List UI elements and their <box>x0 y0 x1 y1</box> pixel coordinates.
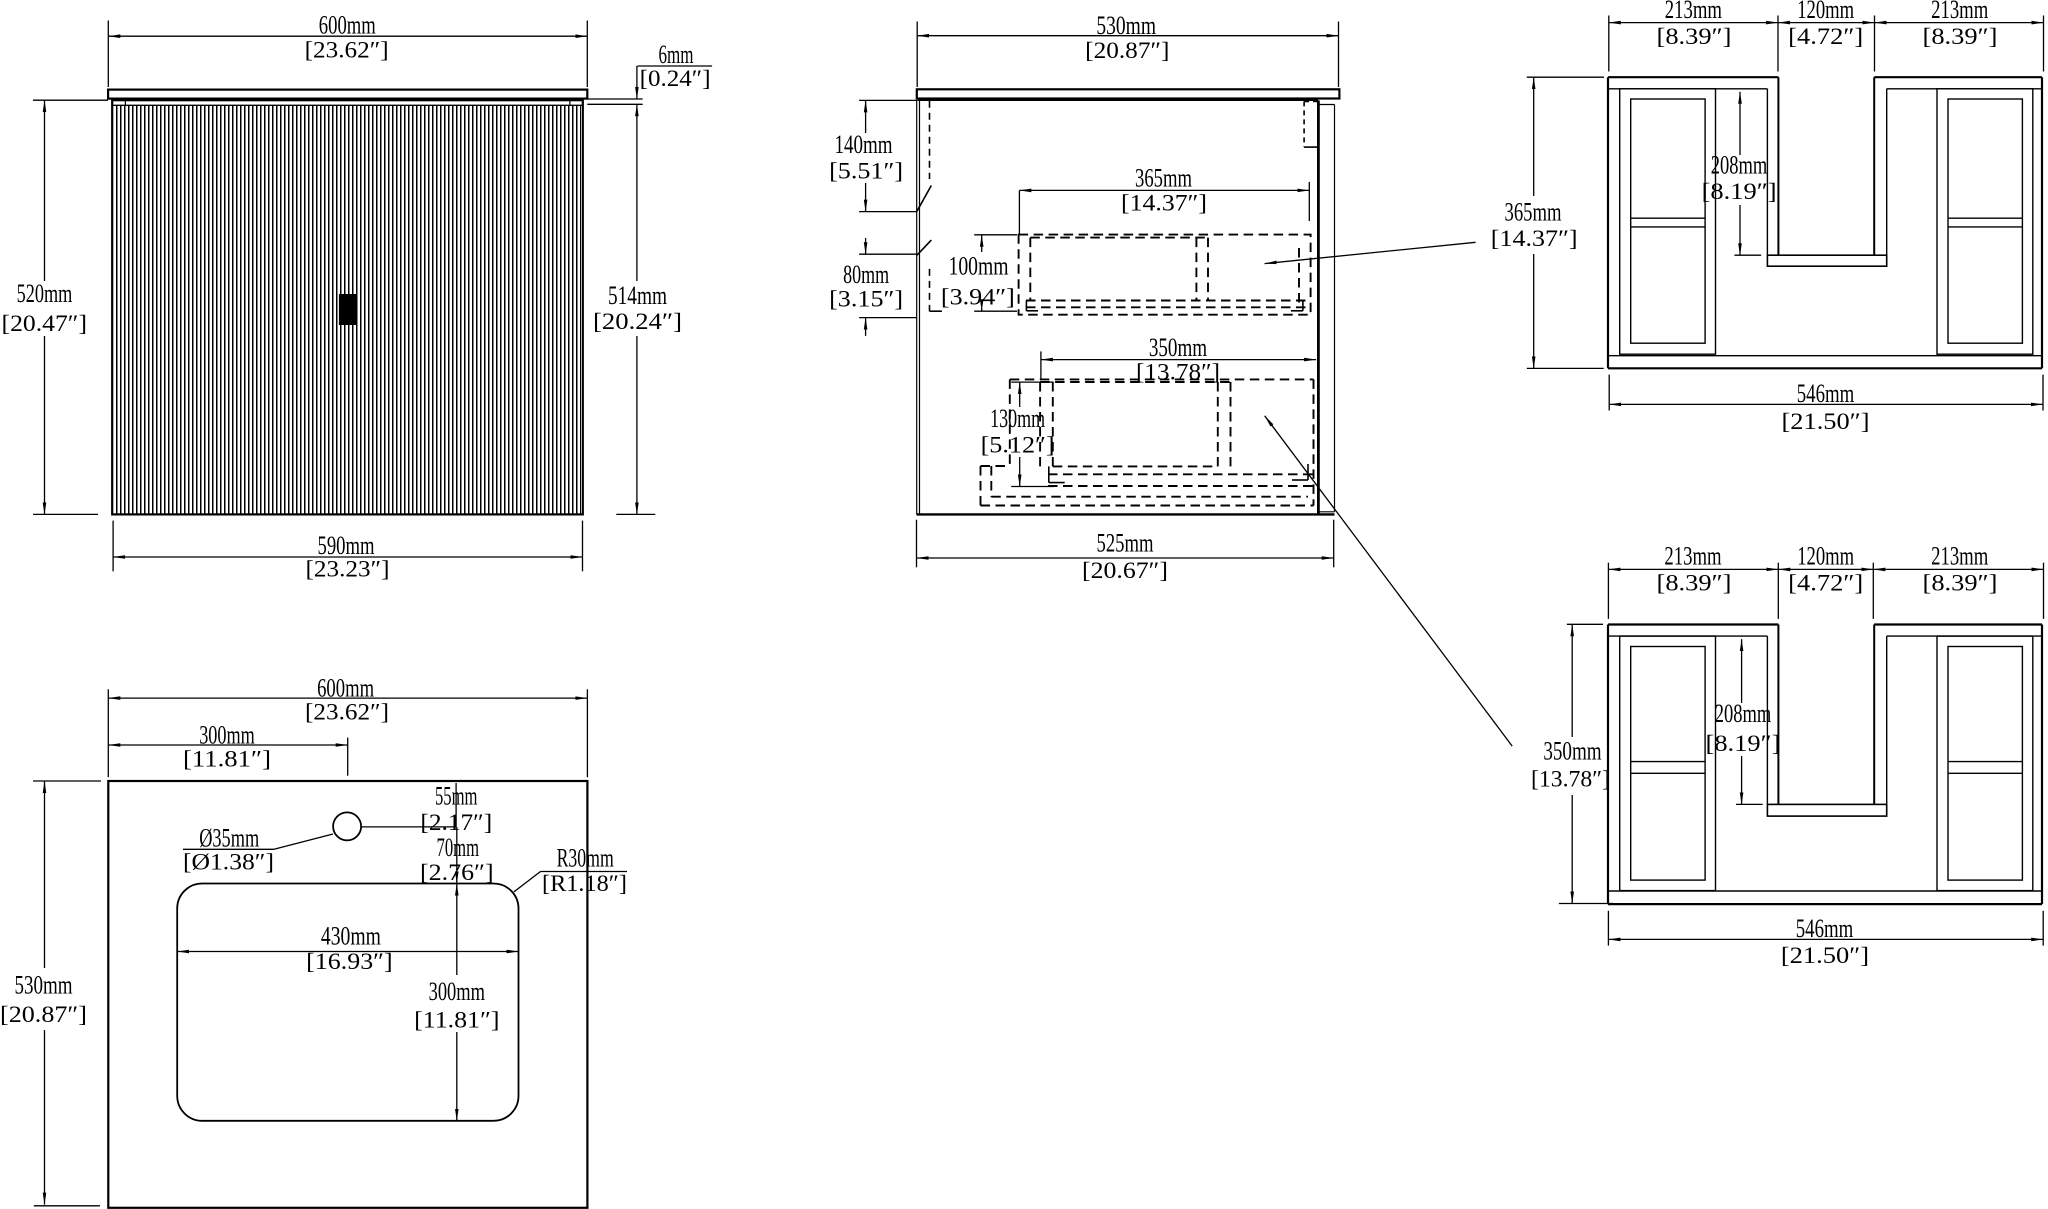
drawer plan A: plumbing notch right wall <box>1873 77 1875 255</box>
drawer plan A: left slide rail inner box <box>1631 99 1705 343</box>
dim 208mm B: dimension line <box>1741 639 1743 703</box>
side view top drawer: inner top dashed edge <box>1030 237 1208 239</box>
side view bottom drawer: bottom rail dashed lines <box>1048 473 1314 475</box>
svg-text:[14.37″]: [14.37″] <box>1121 191 1207 216</box>
dim 55mm: faucet centerline <box>362 826 457 828</box>
drawer plan B: right slide rail outer box <box>1937 636 2033 891</box>
svg-text:213mm: 213mm <box>1665 0 1722 24</box>
svg-text:[8.19″]: [8.19″] <box>1702 179 1777 204</box>
drawer plan A: notch bottom bridge <box>1767 255 1886 266</box>
svg-text:213mm: 213mm <box>1931 542 1988 571</box>
dim 530mm plan left: dimension line <box>44 781 46 968</box>
svg-text:130mm: 130mm <box>990 404 1045 433</box>
drawer plan B: back band top edge <box>1608 623 1778 625</box>
svg-text:70mm: 70mm <box>437 833 480 862</box>
drawer plan A: right slide rail outer box <box>1937 89 2033 354</box>
svg-text:140mm: 140mm <box>835 130 893 159</box>
dim 530mm side top: dimension line <box>917 35 1338 37</box>
svg-text:Ø35mm: Ø35mm <box>199 824 259 853</box>
countertop plan: sink cutout rounded rectangle <box>177 884 518 1121</box>
dim 525mm bottom: extension lines <box>916 520 918 568</box>
svg-text:[R1.18″]: [R1.18″] <box>542 871 627 896</box>
label corner radius R30: underline <box>541 871 628 873</box>
dim 213/120/213 top A: dimension lines <box>1609 22 1778 24</box>
side view bottom drawer: dashed step <box>981 465 1010 467</box>
svg-text:[14.37″]: [14.37″] <box>1491 226 1578 251</box>
dim 6mm: leader underline <box>637 65 712 67</box>
dim 520mm left: dimension line upper <box>44 100 46 281</box>
dim 208mm A: dimension line <box>1739 92 1741 155</box>
dim 350mm side: extension line <box>1040 351 1042 380</box>
dim 80mm: outside arrows <box>865 238 867 254</box>
svg-text:[8.39″]: [8.39″] <box>1923 571 1998 596</box>
dim 6mm: extension line upper <box>587 98 642 100</box>
svg-text:6mm: 6mm <box>659 40 694 69</box>
drawer plan A: front band <box>1608 355 2042 357</box>
side view: front panel break diagonal upper <box>917 186 931 212</box>
svg-text:[5.51″]: [5.51″] <box>829 159 903 184</box>
dim 365mm A: ticks <box>1527 76 1604 78</box>
svg-text:[23.23″]: [23.23″] <box>306 557 390 582</box>
side view top drawer: right inner dashed line <box>1298 248 1300 307</box>
dim 350mm B: ticks <box>1567 623 1603 625</box>
side view: back panel inner thick line <box>1317 101 1320 515</box>
side view bottom drawer: inner offset left <box>990 466 992 497</box>
dim 208mm B: tick <box>1736 803 1763 805</box>
side view bottom drawer: left hook <box>1048 466 1050 482</box>
dim 590mm bottom: dimension line <box>113 556 582 558</box>
drawer plan B: plumbing notch left wall <box>1777 625 1779 805</box>
dim 70mm: vertical line with arrow <box>456 827 458 884</box>
side view bottom drawer: right hook <box>1307 464 1309 480</box>
dim 600mm top: dimension line <box>108 35 587 37</box>
drawer plan A: right slide rail inner box <box>1948 99 2022 343</box>
dim 350mm side: dimension line <box>1041 359 1316 361</box>
leader to top drawer detail view <box>1265 242 1476 263</box>
front view: left side panel divider <box>124 100 126 105</box>
side view: back panel top cap <box>1318 104 1334 106</box>
dim 600mm top: extension lines <box>107 21 109 88</box>
side view: cabinet top line <box>918 99 1319 101</box>
dim 6mm: extension line lower <box>587 103 642 105</box>
dim 80mm: ticks <box>859 253 917 255</box>
svg-text:350mm: 350mm <box>1149 333 1207 362</box>
svg-text:[11.81″]: [11.81″] <box>183 747 271 772</box>
drawer plan A: left outer edge <box>1607 77 1609 368</box>
svg-text:546mm: 546mm <box>1796 914 1854 943</box>
svg-text:300mm: 300mm <box>199 721 255 750</box>
side view bottom drawer: box left dashed double wall <box>1039 382 1041 466</box>
drawer plan A: right outer edge <box>2041 77 2043 368</box>
svg-text:[20.24″]: [20.24″] <box>593 309 682 334</box>
dim 525mm bottom: dimension line <box>917 557 1334 559</box>
dim 140mm: dimension line <box>865 100 867 133</box>
dim 100mm: ticks <box>974 234 1017 236</box>
svg-text:[21.50″]: [21.50″] <box>1782 409 1870 434</box>
drawer plan B: plumbing notch right wall <box>1873 625 1875 805</box>
svg-text:[21.50″]: [21.50″] <box>1781 943 1869 968</box>
front view: cabinet outline <box>112 100 583 514</box>
side view bottom drawer: box top dashed edge <box>1040 381 1230 383</box>
dim 213/120/213 top B: extension lines <box>1607 563 1609 619</box>
svg-text:208mm: 208mm <box>1715 699 1772 728</box>
svg-text:350mm: 350mm <box>1543 737 1601 766</box>
svg-text:[20.47″]: [20.47″] <box>2 311 88 336</box>
drawer plan B: right slide rail inner box <box>1948 647 2022 881</box>
dim 365mm side: dimension line <box>1019 189 1309 191</box>
side view: front panel break diagonal lower <box>917 240 931 255</box>
drawer plan B: back band inner edge <box>1608 635 1767 637</box>
side view: hanging cleat dashed left edge <box>1303 101 1305 147</box>
svg-text:[16.93″]: [16.93″] <box>306 949 393 974</box>
dim 520mm left: top tick <box>33 99 108 101</box>
countertop plan: faucet hole <box>333 812 361 840</box>
side view: front panel dashed edge upper <box>929 101 931 179</box>
svg-text:[13.78″]: [13.78″] <box>1531 767 1610 792</box>
svg-text:600mm: 600mm <box>317 674 374 703</box>
side view top drawer: back wall dashed double line <box>1195 238 1197 301</box>
svg-text:530mm: 530mm <box>15 971 73 1000</box>
side view: front panel dashed edge lower <box>929 269 931 311</box>
side view bottom drawer: dashed left edge lower <box>980 466 982 506</box>
dim 365mm side: extension lines <box>1018 190 1020 235</box>
front view: right side panel divider <box>569 100 571 105</box>
svg-text:[8.39″]: [8.39″] <box>1923 24 1998 49</box>
svg-text:300mm: 300mm <box>429 977 485 1006</box>
dim 514mm right: bottom tick <box>616 513 655 515</box>
side view top drawer: inner left dashed wall <box>1029 238 1031 301</box>
drawer plan A: left slide rail outer box <box>1620 89 1716 354</box>
dim 546mm A: extension lines <box>1608 375 1610 411</box>
side view top drawer: right hook <box>1302 301 1304 311</box>
drawer plan B: right outer edge <box>2041 625 2043 905</box>
dim 140mm: ticks <box>859 99 917 101</box>
svg-text:R30mm: R30mm <box>557 844 614 873</box>
drawer plan A: right slide rail divider <box>1948 217 2022 219</box>
side view bottom drawer: box bottom dashed edge <box>1053 465 1218 467</box>
svg-text:100mm: 100mm <box>949 252 1009 281</box>
svg-text:213mm: 213mm <box>1931 0 1988 24</box>
dim 546mm B: extension lines <box>1607 911 1609 946</box>
dim 55mm: vertical line <box>455 783 457 827</box>
dim 514mm right: dimension line (down arrow) <box>636 336 638 514</box>
side view: back panel bottom cap <box>1318 511 1334 513</box>
countertop plan: outer rectangle <box>108 781 587 1208</box>
svg-text:530mm: 530mm <box>1096 11 1156 40</box>
side view bottom drawer: dashed right edge <box>1313 379 1315 505</box>
svg-text:80mm: 80mm <box>843 260 889 289</box>
dim 520mm left: bottom tick <box>33 513 98 515</box>
svg-text:430mm: 430mm <box>321 922 381 951</box>
side view bottom drawer: box back dashed double wall <box>1217 382 1219 466</box>
drawer plan A: back band inner edge <box>1608 88 1767 90</box>
dim 546mm A: dimension line <box>1609 403 2043 405</box>
drawer plan B: front band <box>1608 890 2042 892</box>
svg-text:365mm: 365mm <box>1505 198 1562 227</box>
dim 600mm plan: dimension line <box>108 697 587 699</box>
svg-text:525mm: 525mm <box>1097 528 1154 557</box>
svg-text:[2.76″]: [2.76″] <box>420 860 494 885</box>
svg-text:[8.39″]: [8.39″] <box>1657 24 1732 49</box>
dim 365mm A: dimension line <box>1533 77 1535 196</box>
side view top drawer: bottom rail dashed lines <box>1026 300 1311 302</box>
svg-text:213mm: 213mm <box>1664 542 1721 571</box>
side view bottom drawer: dashed left edge upper <box>1009 379 1011 466</box>
svg-text:[Ø1.38″]: [Ø1.38″] <box>183 850 274 875</box>
drawer plan B: left slide rail outer box <box>1620 636 1716 891</box>
svg-text:[4.72″]: [4.72″] <box>1788 24 1863 49</box>
drawer plan B: left outer edge <box>1607 625 1609 905</box>
svg-text:[20.67″]: [20.67″] <box>1082 558 1168 583</box>
dim 546mm B: dimension line <box>1608 938 2043 940</box>
svg-text:520mm: 520mm <box>17 279 73 308</box>
label corner radius R30: leader <box>514 872 541 892</box>
svg-text:55mm: 55mm <box>435 782 478 811</box>
svg-text:546mm: 546mm <box>1797 379 1855 408</box>
drawer plan A: plumbing notch left wall <box>1777 77 1779 255</box>
svg-text:120mm: 120mm <box>1797 542 1854 571</box>
label faucet hole diameter: underline <box>183 848 274 850</box>
svg-text:[20.87″]: [20.87″] <box>0 1002 87 1027</box>
dim 6mm: leader drop with down arrow <box>636 66 638 99</box>
dim 430mm sink width: dimension line <box>177 951 518 953</box>
dim 530mm side top: extension lines <box>916 22 918 88</box>
svg-text:[8.19″]: [8.19″] <box>1706 731 1781 756</box>
svg-text:[0.24″]: [0.24″] <box>640 66 711 91</box>
side view top drawer: outer dashed box <box>1019 235 1311 315</box>
front view: countertop <box>108 90 587 99</box>
dim 600mm plan: extension lines <box>107 689 109 777</box>
dim 130mm: dimension line <box>1019 382 1021 407</box>
dim 208mm A: tick <box>1734 254 1761 256</box>
drawer plan A: left slide rail divider <box>1631 217 1705 219</box>
dim 520mm left: dimension line lower <box>44 336 46 514</box>
svg-text:[23.62″]: [23.62″] <box>305 37 389 62</box>
drawer plan A: back band top edge <box>1608 76 1778 78</box>
side view: cabinet bottom line <box>917 513 1335 515</box>
front view: fluted door panel <box>114 105 581 513</box>
side view bottom drawer: dashed top edge <box>1010 378 1314 380</box>
svg-text:[11.81″]: [11.81″] <box>414 1007 499 1032</box>
drawer plan B: left slide rail inner box <box>1631 647 1705 881</box>
dim 300mm sink depth: dimension line <box>456 884 458 976</box>
side view: hanging cleat dashed top edge <box>1304 100 1318 102</box>
front view: door handle <box>339 294 358 325</box>
label faucet hole diameter: leader <box>274 834 333 849</box>
side view: front edge double line <box>916 100 918 514</box>
side view top drawer: left hook <box>1025 301 1027 311</box>
dim 130mm: ticks <box>1011 381 1053 383</box>
drawer plan B: right slide rail divider <box>1948 761 2022 763</box>
side view bottom drawer: dashed bottom edge <box>981 505 1314 507</box>
svg-text:[4.72″]: [4.72″] <box>1788 571 1863 596</box>
dim 300mm faucet offset: tick <box>347 738 349 776</box>
dim 100mm: dimension line <box>981 235 983 252</box>
dim 590mm bottom: extension lines <box>112 521 114 572</box>
svg-text:120mm: 120mm <box>1797 0 1854 24</box>
svg-text:[8.39″]: [8.39″] <box>1657 571 1732 596</box>
svg-text:[5.12″]: [5.12″] <box>981 433 1055 458</box>
drawer plan B: notch bottom bridge <box>1767 804 1886 816</box>
leader to bottom drawer detail view <box>1265 416 1513 746</box>
dim 300mm faucet offset: dimension line <box>108 744 347 746</box>
side view bottom drawer: inner offset bottom <box>991 496 1308 498</box>
dim 213/120/213 top B: dimension lines <box>1608 568 1778 570</box>
svg-text:514mm: 514mm <box>608 281 667 310</box>
svg-text:[3.15″]: [3.15″] <box>829 287 903 312</box>
side view: front panel dashed hook <box>930 310 942 312</box>
dim 514mm right: dimension line (up arrow) <box>636 104 638 281</box>
svg-text:365mm: 365mm <box>1135 164 1192 193</box>
svg-text:[20.87″]: [20.87″] <box>1085 38 1169 63</box>
side view: hanging cleat bottom line <box>1304 146 1318 148</box>
svg-text:600mm: 600mm <box>319 11 376 40</box>
drawer plan B: left slide rail divider <box>1631 761 1705 763</box>
svg-text:[3.94″]: [3.94″] <box>941 285 1015 310</box>
side view: countertop <box>917 89 1340 98</box>
dim 350mm B: dimension line <box>1571 624 1573 737</box>
side view: back panel outer line <box>1334 105 1336 512</box>
dim 213/120/213 top A: extension lines <box>1608 16 1610 72</box>
svg-text:[23.62″]: [23.62″] <box>305 700 389 725</box>
svg-text:208mm: 208mm <box>1711 151 1768 180</box>
front view: door top rail line <box>112 104 583 106</box>
dim 530mm plan left: ticks <box>33 780 101 782</box>
svg-text:[13.78″]: [13.78″] <box>1136 360 1220 385</box>
